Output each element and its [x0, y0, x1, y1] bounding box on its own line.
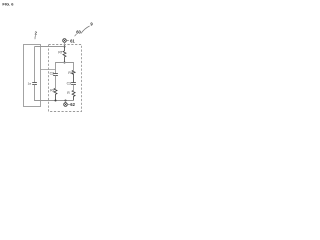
dash to label 62: [68, 104, 70, 106]
svg-text:62: 62: [70, 102, 75, 107]
node dot terminal 62: [65, 100, 67, 102]
node dot top wire: [64, 62, 66, 64]
svg-text:1a: 1a: [28, 81, 32, 85]
svg-text:61: 61: [70, 38, 75, 43]
wire to terminal 62: [65, 101, 67, 103]
top wire between branches: [56, 63, 74, 74]
lead line for label 60: [75, 34, 77, 36]
resistor Rf: [63, 47, 66, 63]
svg-text:R2: R2: [50, 89, 54, 93]
svg-text:Rd: Rd: [68, 71, 72, 75]
svg-text:Rf: Rf: [58, 51, 61, 55]
wire C3 to R3: [73, 85, 75, 91]
lead line for label 9: [81, 26, 90, 33]
capacitor C2 plates: [53, 74, 58, 76]
wire node to crystal (horizontal): [35, 46, 65, 48]
resistor R3 (right branch bottom): [72, 90, 75, 100]
svg-text:FIG. 6: FIG. 6: [2, 2, 14, 7]
resistor Rd (right branch top): [72, 70, 75, 82]
svg-text:C2: C2: [50, 71, 54, 75]
crystal unit box 2: [24, 45, 41, 107]
lead line for label 2: [34, 35, 37, 39]
crystal plates: [32, 83, 37, 85]
bottom bus wire: [41, 100, 74, 102]
oscillation circuit dashed box 60: [49, 45, 82, 112]
capacitor C3 plates: [71, 83, 76, 85]
wire crystal bottom: [35, 85, 41, 101]
node dot left branch bottom: [55, 100, 57, 102]
svg-text:60: 60: [76, 29, 81, 34]
dash to label 61: [67, 40, 69, 42]
svg-text:C3: C3: [67, 82, 71, 86]
terminal 61 circle: [63, 39, 67, 43]
case stub wire: [41, 69, 56, 71]
resistor R2 (left branch): [54, 88, 57, 100]
node dot at resistor top: [64, 46, 66, 48]
wire crystal top (vertical): [34, 47, 36, 83]
terminal 62 circle: [64, 103, 68, 107]
wire terminal 61 down to node: [64, 42, 66, 47]
wire C2 to R2: [55, 76, 57, 89]
